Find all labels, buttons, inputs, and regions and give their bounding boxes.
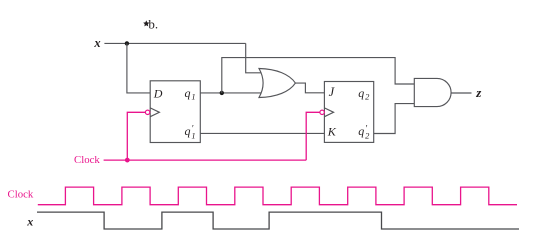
svg-text:z: z [475, 85, 482, 100]
D flip-flop clock triangle [150, 108, 159, 117]
D clock bubble [145, 110, 149, 114]
svg-text:Clock: Clock [8, 189, 34, 201]
node clock junction [125, 158, 130, 163]
node junction on x wire [125, 41, 129, 45]
svg-text:K: K [327, 125, 337, 139]
pin label q2' [358, 124, 370, 141]
wire clock main line [104, 159, 307, 161]
svg-text:q: q [185, 86, 191, 100]
wire q1 output to OR bottom input [200, 92, 261, 94]
wire OR output to J input [295, 83, 324, 93]
wire x down to D input [127, 43, 150, 93]
pin label q1' [185, 124, 196, 141]
svg-text:q: q [358, 86, 364, 100]
svg-text:2: 2 [365, 91, 370, 101]
D flip-flop U1 box [150, 81, 200, 143]
wire q2' to AND bottom input [374, 104, 415, 134]
wire clock to JK flip-flop [306, 112, 320, 160]
svg-text:J: J [329, 85, 336, 99]
label *b. [143, 16, 158, 31]
svg-text:2: 2 [365, 130, 370, 140]
svg-text:D: D [153, 86, 163, 100]
wire q1 up and over to AND top input [222, 58, 414, 93]
AND gate G2 [414, 78, 451, 106]
svg-text:Clock: Clock [74, 154, 100, 166]
wire x input horizontal [104, 42, 245, 44]
svg-text:1: 1 [191, 130, 195, 140]
wire clock to D flip-flop [127, 112, 145, 160]
OR gate G1 [259, 69, 295, 98]
svg-text:x: x [26, 215, 33, 229]
node junction on q1 wire [220, 91, 224, 95]
waveform x trace [37, 212, 519, 229]
JK flip-flop U2 box [324, 82, 373, 143]
svg-text:1: 1 [191, 91, 195, 101]
wire AND output z [451, 92, 471, 94]
JK flip-flop clock triangle [324, 108, 333, 117]
svg-text:x: x [93, 36, 100, 50]
JK clock bubble [320, 110, 324, 114]
svg-text:q: q [185, 124, 191, 138]
pin label q1 [185, 86, 196, 101]
waveform clock trace [38, 187, 517, 205]
wire q1' to K input [200, 132, 324, 134]
svg-text:b.: b. [148, 16, 158, 31]
svg-text:q: q [358, 124, 364, 138]
wire x down to OR top input [246, 43, 262, 72]
pin label q2 [358, 86, 370, 101]
